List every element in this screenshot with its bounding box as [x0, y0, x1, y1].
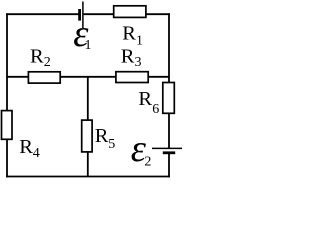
svg-text:R: R	[95, 125, 109, 147]
resistor R2	[28, 72, 60, 83]
label E1	[73, 13, 91, 55]
svg-text:R: R	[30, 45, 44, 67]
svg-text:1: 1	[136, 33, 143, 48]
battery E1 short thick plate	[78, 9, 81, 21]
svg-text:2: 2	[44, 55, 51, 70]
label R4	[19, 136, 40, 161]
wire middle rail	[7, 76, 169, 78]
label R6	[138, 88, 159, 117]
label R5	[95, 125, 116, 152]
battery E1 long thin plate	[82, 2, 84, 29]
svg-text:R: R	[122, 23, 136, 45]
resistor R3	[116, 72, 148, 83]
resistor R5	[82, 120, 92, 152]
svg-text:R: R	[138, 88, 152, 110]
battery E2 short thick plate	[163, 151, 175, 154]
battery E2 long thin plate	[152, 147, 182, 149]
resistor R1	[114, 6, 146, 18]
resistor R4	[2, 111, 13, 140]
svg-text:R: R	[121, 46, 135, 68]
label R2	[30, 45, 51, 70]
wire top rail right segment	[83, 13, 170, 15]
svg-text:3: 3	[135, 55, 142, 70]
wire left border	[6, 13, 8, 177]
svg-text:R: R	[19, 136, 33, 158]
wire top rail left segment	[6, 13, 79, 15]
wire right border upper segment	[168, 13, 170, 148]
svg-text:5: 5	[108, 137, 115, 152]
svg-text:6: 6	[152, 102, 159, 117]
svg-text:1: 1	[85, 38, 92, 53]
svg-text:4: 4	[33, 146, 40, 161]
wire center branch	[87, 77, 89, 177]
wire right border lower segment	[168, 153, 170, 178]
label R1	[122, 23, 143, 49]
svg-text:2: 2	[144, 154, 151, 169]
label R3	[121, 46, 142, 71]
label E2	[131, 128, 152, 170]
wire bottom rail	[6, 176, 170, 178]
resistor R6	[163, 83, 175, 114]
